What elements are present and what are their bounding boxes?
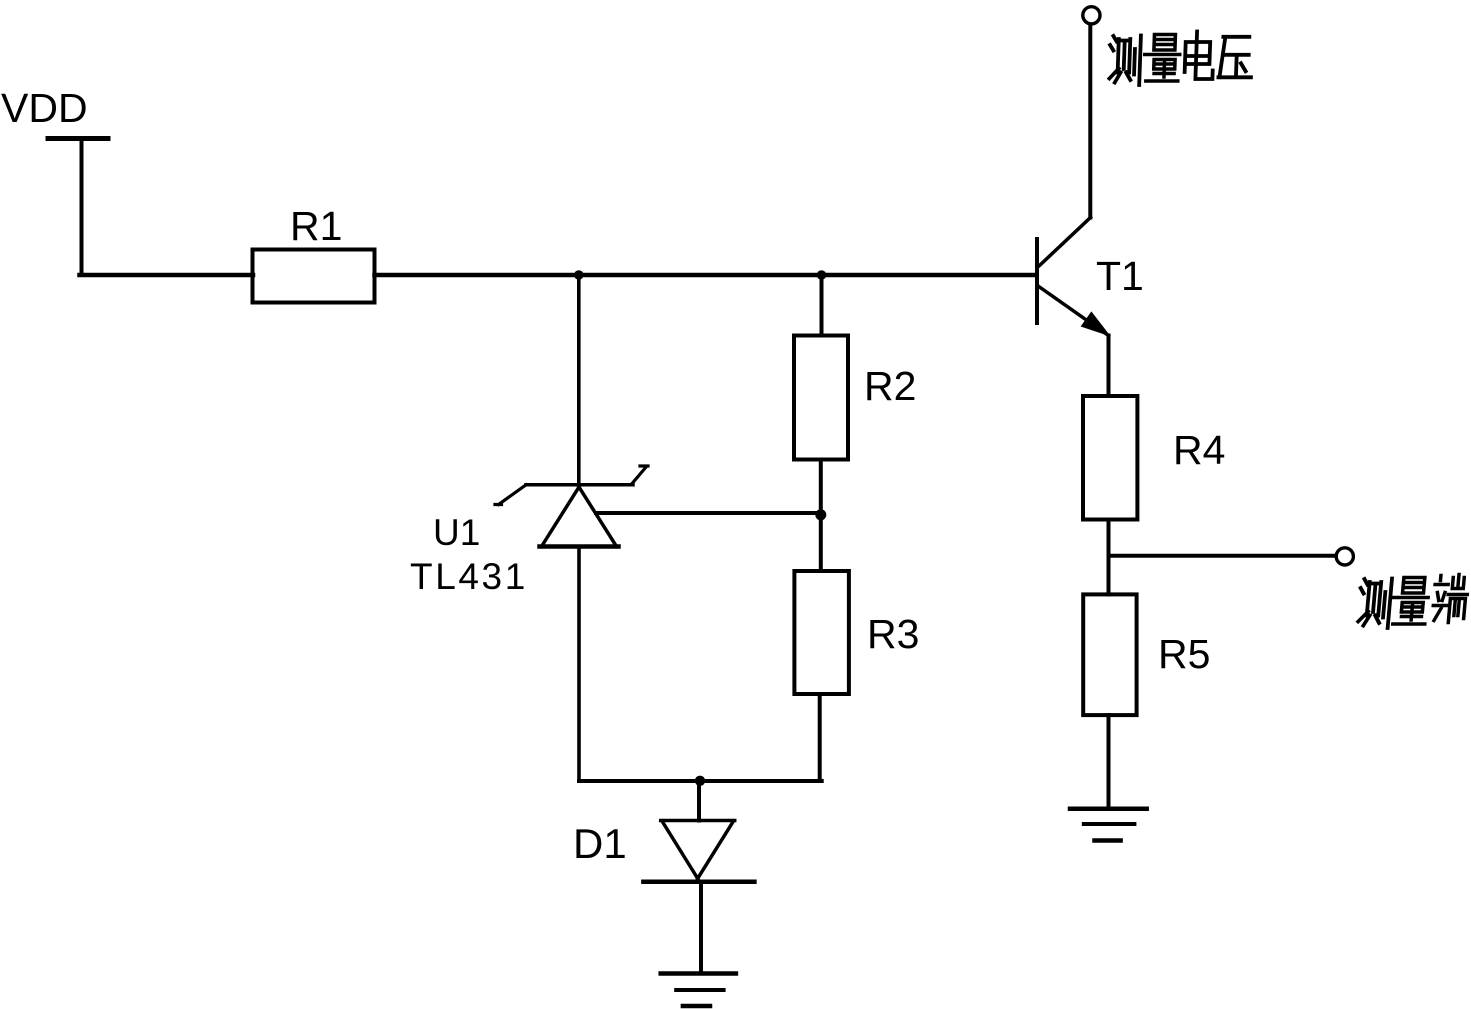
T1 emitter diagonal: [1040, 287, 1109, 336]
resistor R1: [253, 250, 375, 303]
wire measure terminal horizontal: [1109, 554, 1335, 558]
wire VDD vertical: [80, 139, 84, 276]
svg-text:R1: R1: [290, 203, 342, 249]
svg-text:TL431: TL431: [410, 556, 528, 597]
U1 triangle: [542, 487, 617, 547]
U1 triangle base: [540, 544, 619, 549]
ground below D1: [661, 971, 736, 976]
wire D1 cathode vertical: [699, 884, 703, 973]
svg-text:U1: U1: [433, 512, 480, 553]
terminal circle measure point: [1336, 548, 1353, 565]
wire main horizontal right of R1: [375, 273, 1036, 278]
VDD power bar: [48, 136, 108, 141]
resistor R5: [1083, 594, 1136, 715]
wire D1 anode stub: [697, 781, 701, 821]
svg-text:D1: D1: [573, 820, 627, 867]
wire emitter vertical: [1107, 336, 1111, 397]
svg-text:VDD: VDD: [1, 85, 88, 131]
svg-text:T1: T1: [1096, 253, 1144, 299]
wire anode horizontal: [579, 779, 822, 783]
label measure terminal (Chinese): [1357, 579, 1392, 629]
wire U1 cathode vertical: [577, 275, 581, 487]
wire R3 bottom vertical: [818, 694, 822, 781]
T1 emitter arrow: [1082, 313, 1108, 335]
svg-text:R5: R5: [1158, 631, 1210, 677]
diode D1 triangle sides: [662, 821, 734, 879]
svg-text:R3: R3: [867, 611, 919, 657]
wire U1 reference horizontal: [596, 511, 821, 515]
ground below R5: [1070, 806, 1147, 811]
transistor T1 base bar: [1035, 239, 1039, 323]
label measure voltage (Chinese): [1109, 36, 1141, 86]
resistor R2: [794, 336, 848, 460]
terminal circle measure voltage: [1083, 7, 1100, 24]
resistor R4: [1083, 396, 1137, 520]
T1 collector diagonal: [1040, 218, 1091, 266]
resistor R3: [794, 571, 849, 694]
wire collector vertical: [1088, 25, 1092, 218]
U1 cathode left bend: [495, 485, 526, 505]
wire R2 top vertical: [820, 275, 824, 336]
wire R5 bottom vertical: [1107, 715, 1111, 808]
wire R4 bottom vertical: [1107, 520, 1111, 595]
svg-text:R2: R2: [864, 363, 916, 409]
node junction at reference wire: [815, 509, 826, 520]
wire main horizontal left of R1: [80, 273, 254, 278]
svg-text:R4: R4: [1173, 427, 1225, 473]
op-amp U1 TL431 cathode bar: [526, 483, 633, 487]
U1 cathode right bend: [633, 466, 649, 483]
diode D1 top bar: [661, 819, 735, 823]
wire U1 anode vertical: [577, 547, 581, 782]
node junction at R2 branch: [817, 270, 827, 280]
node junction at U1 cathode branch: [574, 270, 584, 280]
diode D1 cathode bar: [643, 879, 754, 884]
node junction at D1: [695, 776, 705, 786]
wire R2 bottom to R3 top: [819, 460, 823, 572]
